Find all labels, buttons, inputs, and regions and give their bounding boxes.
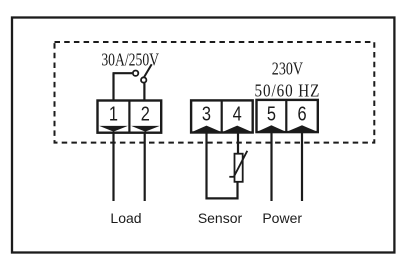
svg-text:Power: Power <box>262 210 302 226</box>
svg-text:5: 5 <box>267 102 276 125</box>
svg-text:230V: 230V <box>272 60 303 79</box>
svg-text:Sensor: Sensor <box>198 210 243 226</box>
svg-text:Load: Load <box>110 210 141 226</box>
svg-text:30A/250V: 30A/250V <box>101 51 159 70</box>
svg-text:2: 2 <box>141 102 150 125</box>
svg-text:1: 1 <box>109 102 118 125</box>
svg-text:3: 3 <box>202 102 211 125</box>
svg-text:4: 4 <box>233 102 242 125</box>
svg-text:50/60 HZ: 50/60 HZ <box>255 80 321 101</box>
svg-text:6: 6 <box>297 102 306 125</box>
